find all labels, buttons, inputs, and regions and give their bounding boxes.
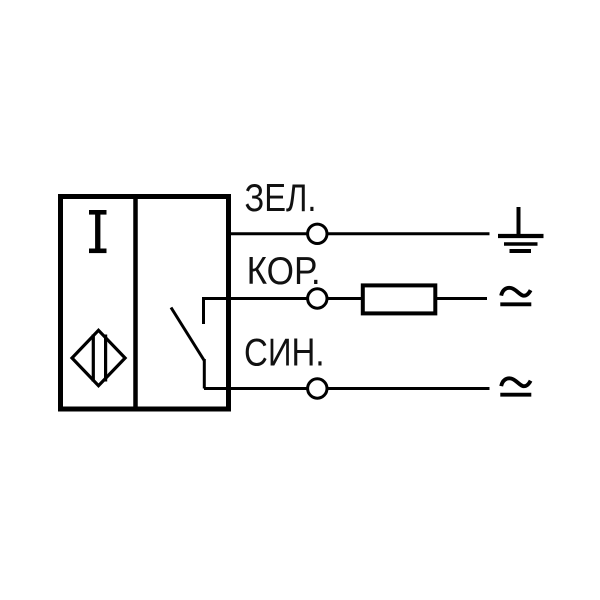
sensor body divider bbox=[133, 194, 138, 409]
terminal circle on KOR wire bbox=[308, 289, 327, 308]
wire SIN (blue) net bbox=[204, 387, 490, 390]
switch S1 fixed contact stub bbox=[204, 299, 229, 325]
resistor R1 (load) bbox=[363, 285, 436, 313]
sensor body U1 bbox=[61, 197, 229, 410]
AC source symbol (approx) bottom bbox=[500, 378, 531, 394]
switch S1 blade (normally open) bbox=[171, 308, 204, 361]
proximity sensor symbol (diamond) bbox=[72, 330, 125, 385]
diamond inner line left bbox=[92, 335, 95, 382]
ground symbol bbox=[498, 207, 544, 251]
wire from resistor to AC source bbox=[437, 297, 487, 300]
svg-text:КОР.: КОР. bbox=[247, 250, 321, 293]
diamond inner line right bbox=[104, 335, 107, 382]
svg-text:ЗЕЛ.: ЗЕЛ. bbox=[245, 177, 317, 220]
wire KOR (brown) net bbox=[228, 297, 361, 300]
wire ZEL (green) net bbox=[228, 232, 490, 235]
terminal circle on ZEL wire bbox=[308, 224, 327, 243]
label I (inductive marker) bbox=[89, 210, 107, 253]
AC source symbol (approx) middle bbox=[500, 288, 531, 304]
terminal circle on SIN wire bbox=[308, 379, 327, 398]
svg-text:СИН.: СИН. bbox=[244, 332, 325, 375]
switch S1 lower stub bbox=[203, 359, 206, 389]
